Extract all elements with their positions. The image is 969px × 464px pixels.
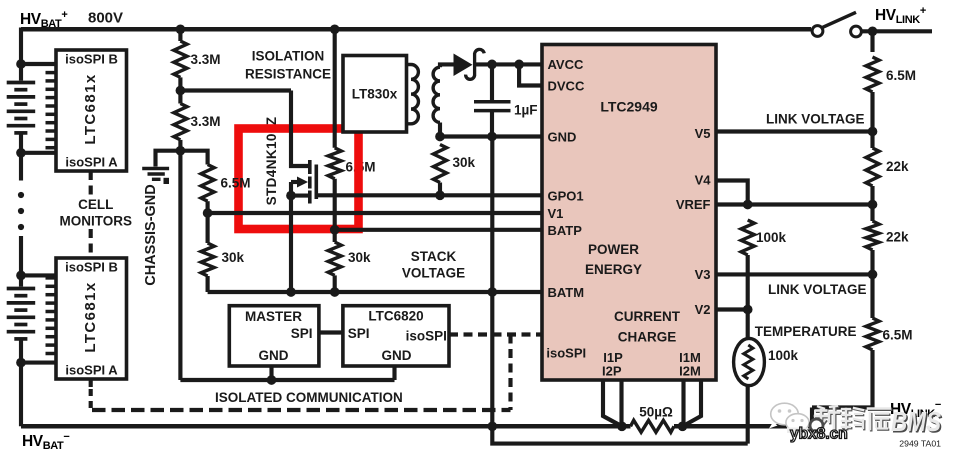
diode D1 schottky	[454, 54, 473, 77]
svg-text:POWER: POWER	[588, 242, 639, 257]
transformer T1 secondary	[433, 67, 440, 122]
svg-text:1µF: 1µF	[514, 103, 538, 118]
junction MASTER GND / chassis	[267, 375, 277, 385]
wire isoSPI to isolated-comm (dashed)	[508, 335, 512, 411]
highlight red box	[239, 129, 359, 230]
wire R5 to 30k R6	[333, 179, 337, 242]
junction GPO1 / 30k	[435, 190, 445, 200]
wire R10 to R11	[870, 186, 874, 221]
svg-text:LINK VOLTAGE: LINK VOLTAGE	[768, 282, 867, 297]
svg-text:2949 TA01: 2949 TA01	[899, 439, 941, 449]
ground chassis symbol	[156, 151, 181, 167]
wire I1M/I2M sense	[684, 380, 701, 426]
battery stack B1	[7, 83, 36, 133]
svg-text:I2P: I2P	[602, 364, 622, 379]
wire tap to isoSPI B 2	[21, 273, 56, 277]
cell monitor U3 LTC681x lower	[56, 258, 127, 379]
junction shunt left	[617, 421, 627, 431]
svg-text:LTC2949: LTC2949	[600, 99, 658, 115]
junction GND bus / BATM	[487, 287, 497, 297]
svg-text:6.5M: 6.5M	[221, 176, 251, 191]
svg-text:GPO1: GPO1	[548, 188, 584, 203]
wire V4 net	[716, 181, 748, 205]
junction R1/R2 midpoint	[176, 86, 186, 96]
svg-text:ISOLATED COMMUNICATION: ISOLATED COMMUNICATION	[215, 390, 403, 405]
wire V5 net	[716, 129, 873, 133]
wire midpoint to MOSFET drain	[180, 88, 291, 92]
svg-text:ISOLATION: ISOLATION	[252, 49, 325, 64]
wire battery column lower	[19, 236, 23, 287]
svg-text:3.3M: 3.3M	[191, 114, 221, 129]
junction AVCC / DVCC	[514, 60, 524, 70]
svg-text:800V: 800V	[88, 9, 123, 26]
svg-text:6.5M: 6.5M	[883, 328, 913, 343]
resistor R8 shunt 50uOhm	[631, 420, 674, 432]
svg-text:isoSPI: isoSPI	[546, 346, 586, 361]
svg-text:30k: 30k	[222, 250, 245, 265]
block MASTER SPI	[229, 306, 319, 366]
junction battery2 tap top	[16, 271, 26, 281]
svg-text:ENERGY: ENERGY	[585, 262, 642, 277]
wire HV_LINK- rail	[674, 424, 812, 429]
svg-text:V4: V4	[695, 173, 712, 188]
wire VREF net	[716, 202, 873, 206]
resistor R12 100k	[741, 220, 754, 255]
wire R7 to GPO1 net	[438, 183, 442, 196]
svg-text:DVCC: DVCC	[548, 79, 585, 94]
node continuation dots	[18, 192, 24, 198]
pins cell-tap comb U3	[46, 278, 58, 354]
thermistor RT1 100k	[746, 310, 750, 340]
resistor R2 3.3M	[174, 104, 187, 140]
watermark logo faces	[769, 403, 810, 434]
regulator U4 LT830x	[343, 56, 407, 133]
resistor R3 6.5M	[201, 165, 214, 202]
wire isoSPI link (dashed)	[449, 332, 542, 336]
svg-text:CELL: CELL	[78, 197, 113, 212]
wire HV_BAT+ top rail	[21, 27, 811, 32]
svg-text:I2M: I2M	[679, 364, 701, 379]
junction V3 node	[868, 270, 878, 280]
wire ISOLATED COMMUNICATION rail (dashed)	[92, 408, 511, 412]
svg-text:LINK VOLTAGE: LINK VOLTAGE	[766, 112, 865, 127]
svg-text:100k: 100k	[768, 348, 799, 363]
junction GND / C1 bottom	[487, 132, 497, 142]
svg-text:V2: V2	[695, 302, 711, 317]
wire R6 to BATM	[333, 275, 337, 292]
svg-text:22k: 22k	[886, 230, 909, 245]
svg-text:STACK: STACK	[411, 249, 457, 264]
wire AVCC net	[475, 62, 543, 66]
wire V2 net	[716, 307, 748, 311]
wire I1P/I2P sense	[603, 380, 621, 426]
svg-text:V5: V5	[695, 126, 711, 141]
junction AVCC / C1	[487, 60, 497, 70]
svg-text:MASTER: MASTER	[245, 309, 302, 324]
resistor R7 30k	[433, 145, 446, 183]
svg-text:BATP: BATP	[548, 223, 583, 238]
junction MOSFET source / BATM	[286, 287, 296, 297]
wire SPI-SPI	[319, 330, 343, 334]
switch S1 lever	[821, 12, 857, 28]
wire gate / GPO1 net	[316, 193, 542, 197]
junction shunt right	[678, 421, 688, 431]
svg-text:30k: 30k	[453, 155, 476, 170]
junction VREF / 22k-22k	[868, 200, 878, 210]
junction battery tap bottom	[16, 148, 26, 158]
svg-text:TEMPERATURE: TEMPERATURE	[755, 324, 857, 339]
junction rail / 3.3M column	[176, 24, 186, 34]
junction VREF / V4 / 100k	[743, 200, 753, 210]
svg-text:SPI: SPI	[291, 326, 313, 341]
junction rail / 6.5M column	[330, 24, 340, 34]
wire secondary bottom	[438, 123, 442, 137]
svg-text:30k: 30k	[348, 250, 371, 265]
op-amp U1 LTC2949 monitor IC	[542, 45, 716, 381]
wire R11 to R13	[870, 250, 874, 318]
junction V2 / thermistor	[743, 305, 753, 315]
svg-text:50µΩ: 50µΩ	[639, 405, 673, 420]
svg-text:GND: GND	[259, 348, 289, 363]
svg-text:CHASSIS-GND: CHASSIS-GND	[143, 184, 159, 286]
svg-text:MONITORS: MONITORS	[60, 214, 133, 229]
svg-text:LTC681x: LTC681x	[82, 281, 99, 352]
svg-text:V3: V3	[695, 267, 711, 282]
svg-text:LTC681x: LTC681x	[82, 73, 99, 144]
resistor R11 22k	[866, 221, 879, 250]
wire chassis vertical bus	[178, 151, 182, 380]
battery stack B2	[7, 289, 36, 339]
resistor R5 6.5M zigzag	[328, 148, 341, 179]
junction GND / secondary / 30k	[435, 132, 445, 142]
pins cell-tap comb U2	[46, 73, 58, 148]
wire V3 net	[716, 272, 873, 276]
cell monitor U2 LTC681x upper	[56, 50, 127, 171]
svg-text:LT830x: LT830x	[352, 87, 398, 102]
svg-text:LTC6820: LTC6820	[368, 309, 423, 324]
capacitor C1 1uF	[490, 64, 494, 100]
svg-text:AVCC: AVCC	[548, 57, 584, 72]
resistor R4 30k	[201, 243, 214, 276]
wire HV_LINK- drop	[810, 408, 814, 427]
resistor R9 6.5M	[866, 57, 879, 92]
wire isoSPI A down (U3)	[89, 379, 93, 387]
watermark brand characters	[816, 407, 891, 430]
wire R13 to HV_LINK- rail	[812, 350, 873, 408]
junction BATP node	[330, 225, 340, 235]
wire secondary to diode D1	[440, 64, 455, 67]
svg-text:GND: GND	[382, 348, 412, 363]
svg-text:VREF: VREF	[676, 197, 711, 212]
svg-text:ybx8.cn: ybx8.cn	[790, 426, 848, 443]
wire chassis to SPI GNDs	[180, 378, 394, 382]
wire HV_BAT- rail	[21, 424, 631, 429]
svg-text:3.3M: 3.3M	[191, 52, 221, 67]
junction V1 node	[203, 208, 213, 218]
junction battery tap top	[16, 59, 26, 69]
wire R1-R2	[178, 77, 182, 103]
wire GND bus down to HV_BAT- rail	[490, 137, 494, 427]
transformer T1 primary	[407, 65, 419, 124]
wire tap to isoSPI A 2	[21, 361, 56, 365]
svg-text:VOLTAGE: VOLTAGE	[402, 266, 465, 281]
wire tap to isoSPI B	[21, 62, 56, 66]
svg-text:isoSPI B: isoSPI B	[65, 260, 118, 275]
wire rail to R5	[333, 29, 337, 148]
svg-text:V1: V1	[548, 206, 564, 221]
wire R3-R4	[206, 201, 210, 243]
resistor R1 3.3M	[174, 41, 187, 77]
wire BATM net	[208, 290, 542, 294]
svg-text:CHARGE: CHARGE	[618, 330, 677, 345]
wire battery column mid	[19, 133, 23, 181]
svg-text:100k: 100k	[756, 230, 787, 245]
svg-text:CURRENT: CURRENT	[614, 309, 681, 324]
watermark circle	[810, 419, 823, 432]
junction HV_LINK+ node	[868, 26, 878, 36]
wire tap to isoSPI A	[21, 151, 56, 155]
junction chassis node	[176, 146, 186, 156]
wire R9 to R10	[870, 92, 874, 148]
wire MASTER GND down	[269, 366, 273, 380]
wire GND return to thermistor	[492, 426, 747, 443]
svg-text:isoSPI B: isoSPI B	[65, 52, 118, 67]
wire isoSPI daisy chain (dashed)	[89, 171, 93, 258]
junction 30k / BATM	[330, 287, 340, 297]
resistor R6 30k	[328, 242, 341, 275]
svg-text:BATM: BATM	[548, 285, 585, 300]
switch S1 contact right	[851, 26, 862, 37]
junction V5 node	[868, 127, 878, 137]
wire LTC6820 GND down	[392, 366, 396, 380]
svg-text:BMS: BMS	[891, 406, 941, 437]
junction GND bus / HV_BAT- rail	[487, 421, 497, 431]
wire battery column to HV_BAT- rail	[19, 339, 23, 426]
svg-text:isoSPI A: isoSPI A	[65, 363, 118, 378]
wire chassis node to R3	[180, 151, 207, 165]
wire thermistor bottom drop	[746, 384, 750, 444]
wire battery column upper	[19, 28, 23, 81]
wire DVCC branch	[519, 64, 542, 85]
wire to R9	[870, 31, 874, 52]
svg-text:GND: GND	[548, 130, 577, 145]
svg-text:isoSPI: isoSPI	[406, 329, 447, 344]
block U5 LTC6820	[343, 306, 449, 366]
wire V1 net	[208, 211, 542, 215]
wire BATP net	[335, 228, 542, 232]
wire HV_LINK+	[862, 29, 933, 33]
svg-text:22k: 22k	[886, 159, 909, 174]
svg-text:6.5M: 6.5M	[886, 68, 916, 83]
wire GND net	[440, 134, 542, 138]
wire R4 to BATM rail	[206, 276, 210, 292]
junction battery2 tap bottom	[16, 358, 26, 368]
resistor R10 22k	[866, 148, 879, 186]
svg-text:RESISTANCE: RESISTANCE	[245, 67, 331, 82]
svg-text:SPI: SPI	[348, 326, 370, 341]
transistor Q1 STD4NK100Z	[291, 91, 308, 167]
wire R12 to V2 node	[746, 255, 750, 310]
wire rail to R1	[178, 29, 182, 41]
wire R2 to chassis node	[178, 140, 182, 152]
svg-text:isoSPI A: isoSPI A	[65, 155, 118, 170]
resistor R13 6.5M	[866, 318, 879, 350]
switch S1 contact left	[812, 26, 823, 37]
